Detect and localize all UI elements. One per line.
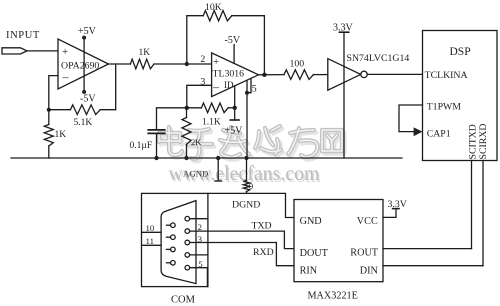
resistor 1.1K bbox=[201, 103, 228, 113]
node dot threshold bbox=[185, 106, 189, 110]
svg-text:AGND: AGND bbox=[183, 169, 208, 179]
svg-text:SCITXD: SCITXD bbox=[468, 124, 479, 159]
resistor 2K to ground bbox=[186, 108, 188, 118]
comparator U2 TL3016 bbox=[212, 53, 259, 97]
wire 10K to output bbox=[232, 16, 265, 75]
svg-text:–: – bbox=[62, 70, 70, 84]
ground bus bbox=[11, 157, 402, 159]
svg-text:RXD: RXD bbox=[253, 247, 274, 258]
svg-text:T1PWM: T1PWM bbox=[427, 102, 462, 113]
svg-text:DIN: DIN bbox=[360, 266, 379, 277]
svg-text:5: 5 bbox=[252, 84, 257, 95]
AGND stub bbox=[217, 158, 219, 181]
left pin circles column bbox=[167, 223, 176, 265]
wire node to cap bbox=[157, 108, 187, 130]
svg-text:MAX3221E: MAX3221E bbox=[308, 291, 358, 302]
svg-text:ROUT: ROUT bbox=[350, 248, 379, 259]
wire lead 10 bbox=[142, 231, 162, 233]
pin 5 latch stubs bbox=[247, 79, 251, 93]
svg-text:CAP1: CAP1 bbox=[427, 128, 451, 139]
inverter output bubble bbox=[361, 71, 367, 77]
bus junction dots bbox=[154, 156, 158, 160]
resistor 1K series bbox=[130, 59, 154, 69]
resistor 10K bbox=[203, 11, 232, 21]
svg-text:0: 0 bbox=[249, 181, 254, 191]
wire input to op-amp bbox=[27, 50, 58, 52]
resistor 1K to ground bbox=[48, 110, 50, 125]
svg-text:GND: GND bbox=[300, 216, 322, 227]
op-amp U1 OPA2690 bbox=[58, 39, 109, 89]
svg-text:1.1K: 1.1K bbox=[202, 118, 221, 128]
svg-text:VCC: VCC bbox=[357, 216, 378, 227]
wire inverting input loop bbox=[49, 76, 58, 110]
svg-text:SCIRXD: SCIRXD bbox=[478, 124, 489, 160]
svg-text:ID: ID bbox=[224, 80, 234, 90]
3.3V supply rail bbox=[343, 32, 345, 158]
resistor 5.1K feedback bbox=[70, 105, 100, 115]
wire node to 1.1K bbox=[187, 107, 202, 109]
op-amp power rail +5V to -5V bbox=[83, 37, 85, 92]
svg-text:DOUT: DOUT bbox=[300, 248, 329, 259]
watermark url text bbox=[169, 161, 322, 187]
svg-text:-5V: -5V bbox=[225, 35, 241, 46]
ROUT wire bbox=[383, 248, 472, 250]
wire SCITXD down bbox=[471, 161, 473, 249]
wire inverter to DSP bbox=[367, 73, 422, 75]
svg-text:+: + bbox=[62, 46, 68, 58]
wire SCIRXD down bbox=[482, 161, 484, 266]
output node dot bbox=[262, 73, 266, 77]
svg-text:RIN: RIN bbox=[300, 266, 318, 277]
T1PWM to CAP1 loop bbox=[399, 105, 423, 132]
svg-text:INPUT: INPUT bbox=[6, 30, 40, 41]
svg-text:DGND: DGND bbox=[232, 200, 260, 211]
svg-text:SN74LVC1G14: SN74LVC1G14 bbox=[347, 53, 410, 64]
right pin circles column bbox=[185, 216, 208, 286]
capacitor 0.1uF bbox=[148, 129, 164, 131]
svg-text:1K: 1K bbox=[55, 130, 67, 140]
input connector J1 bbox=[2, 48, 27, 54]
wire 10K feedback loop bbox=[187, 16, 203, 64]
svg-text:2: 2 bbox=[200, 54, 205, 65]
MAX3221E block U5 bbox=[294, 200, 383, 282]
DGND wire bbox=[208, 193, 294, 217]
svg-text:0.1µF: 0.1µF bbox=[130, 141, 153, 151]
svg-text:-5V: -5V bbox=[80, 94, 96, 105]
wire output to 100R bbox=[259, 74, 284, 76]
arrowhead bbox=[414, 127, 423, 136]
svg-text:5: 5 bbox=[198, 259, 203, 269]
DB9 shell bbox=[161, 201, 196, 284]
svg-text:10K: 10K bbox=[205, 2, 222, 13]
svg-text:3.3V: 3.3V bbox=[333, 22, 354, 33]
wire op-amp output bbox=[109, 63, 131, 65]
inverter U3 SN74LVC1G14 bbox=[328, 59, 361, 91]
node dot +5V branch bbox=[233, 106, 237, 110]
wire 1K to comparator node bbox=[154, 63, 212, 65]
svg-text:5.1K: 5.1K bbox=[74, 118, 93, 128]
resistor 0 ohm bbox=[246, 158, 248, 181]
-5V terminal dot bbox=[82, 90, 86, 94]
TXD wire bbox=[190, 231, 294, 249]
COM connector P1 bbox=[142, 193, 208, 286]
svg-text:–: – bbox=[212, 79, 220, 93]
svg-text:DSP: DSP bbox=[450, 46, 471, 58]
wire 5.1K to output bbox=[100, 64, 115, 110]
svg-text:3.3V: 3.3V bbox=[388, 199, 407, 210]
node dot pin2 bbox=[185, 62, 189, 66]
wire lead 11 bbox=[142, 244, 162, 246]
RXD wire bbox=[190, 243, 294, 266]
VCC wire to 3.3V bbox=[383, 209, 396, 218]
svg-text:+: + bbox=[213, 56, 219, 68]
wire 100R to inverter bbox=[314, 74, 328, 76]
svg-text:100: 100 bbox=[290, 59, 305, 70]
svg-text:1K: 1K bbox=[139, 48, 151, 58]
svg-text:TL3016: TL3016 bbox=[213, 69, 245, 80]
+5V bar terminal bbox=[230, 119, 239, 121]
svg-text:+5V: +5V bbox=[225, 126, 244, 137]
svg-text:TCLKINA: TCLKINA bbox=[425, 70, 468, 81]
wire to 5.1K bbox=[49, 109, 71, 111]
svg-text:OPA2690: OPA2690 bbox=[61, 60, 99, 71]
wire 1.1K to +5V bbox=[228, 107, 235, 109]
resistor 100 bbox=[284, 70, 314, 80]
svg-text:2K: 2K bbox=[191, 137, 202, 147]
svg-text:COM: COM bbox=[171, 295, 196, 306]
node dot feedback left bbox=[47, 108, 51, 112]
DIN wire bbox=[383, 265, 483, 267]
wire pin5 to bus bbox=[246, 93, 248, 158]
+5V terminal dot bbox=[82, 36, 86, 40]
svg-text:+5V: +5V bbox=[78, 26, 97, 37]
-5V stub bbox=[233, 45, 235, 64]
svg-text:TXD: TXD bbox=[252, 221, 272, 232]
wire pin3 bbox=[187, 85, 212, 108]
DSP block U4 bbox=[423, 31, 498, 161]
